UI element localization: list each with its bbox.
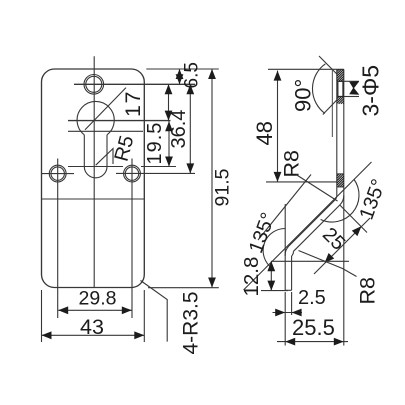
svg-text:90°: 90°	[291, 79, 316, 112]
right hole vertical centerline	[131, 159, 133, 319]
right hole bore	[125, 167, 138, 180]
countersink 90 deg upper leg	[319, 56, 337, 75]
lower bend inner arc	[292, 251, 294, 256]
left hole vertical centerline	[57, 159, 59, 319]
svg-text:29.8: 29.8	[79, 288, 117, 310]
right wall extension down (serves 135 leg and 25.5 extension)	[343, 195, 345, 345]
dimension 48	[277, 71, 279, 182]
top hole bore circle	[86, 76, 102, 92]
bottom section right wall	[291, 256, 293, 290]
vertical centerline	[93, 56, 95, 287]
hatch middle patch (side holes section)	[337, 174, 344, 187]
bottom section bottom edge	[285, 289, 291, 291]
leader for 4-R3.5	[141, 281, 168, 342]
upper bend outer arc	[340, 195, 344, 205]
svg-text:3-Φ5: 3-Φ5	[358, 65, 384, 117]
countersink 90 deg lower leg	[323, 100, 338, 115]
12.8 bottom reference line	[261, 290, 288, 292]
svg-text:4-R3.5: 4-R3.5	[180, 291, 203, 354]
right hole horizontal centerline extended to 36.4 dimension	[116, 172, 195, 174]
43 left extension line	[41, 290, 43, 342]
lower bend outer arc	[285, 246, 289, 256]
countersink bore rectangle	[338, 81, 343, 96]
left hole horizontal centerline	[42, 173, 74, 175]
dimension 19.5	[168, 121, 170, 167]
leader for R5	[96, 149, 113, 166]
R8 upper leader	[296, 175, 338, 202]
48 bottom reference line	[266, 181, 337, 183]
top hole countersink circle	[84, 75, 104, 95]
90 deg arc	[312, 64, 325, 114]
dimension 91.5	[211, 69, 213, 288]
svg-text:6.5: 6.5	[182, 62, 203, 88]
hatch top patch	[337, 69, 344, 81]
upper bend inner arc	[335, 195, 337, 200]
long construction diagonal L1	[244, 162, 372, 290]
dimension 29.8	[58, 309, 132, 311]
diagonal section upper-left edge	[289, 200, 335, 246]
svg-text:91.5: 91.5	[212, 168, 234, 206]
43 right extension line	[143, 290, 145, 342]
hatch lower patch of top hole	[337, 97, 344, 104]
horizontal reference line (12.8 top / 25 lower)	[271, 260, 349, 262]
135 left arc	[263, 228, 285, 266]
dimension 12.8	[270, 261, 272, 290]
svg-text:48: 48	[252, 121, 277, 145]
side plate right wall	[343, 69, 345, 195]
plate outline (front view, rounded rectangle 43x91.5)	[42, 69, 145, 288]
135 right arc	[321, 180, 359, 223]
dimension 43	[42, 334, 145, 336]
svg-text:43: 43	[80, 315, 104, 339]
svg-text:12.8: 12.8	[240, 257, 263, 297]
side view top edge with 48 extension	[268, 68, 344, 70]
left hole bore	[51, 167, 64, 180]
svg-text:19.5: 19.5	[144, 122, 166, 165]
25 dimension line	[314, 218, 370, 274]
bottom section left wall	[284, 256, 286, 290]
bore edge stubs	[344, 80, 359, 82]
big circle of keyhole	[77, 101, 114, 134]
91.5 bottom extension line	[148, 287, 219, 289]
svg-text:2.5: 2.5	[298, 287, 326, 309]
slot bottom centerline	[68, 166, 123, 168]
slot junction line	[68, 130, 143, 132]
right hole countersink circle	[124, 165, 141, 182]
diagonal section lower-right edge	[294, 205, 340, 251]
slot right wall	[106, 135, 108, 167]
slot left wall	[83, 135, 85, 167]
135 left vertical leg	[284, 204, 286, 256]
top hole centerline	[74, 83, 195, 85]
svg-text:36.4: 36.4	[168, 110, 190, 149]
svg-text:R8: R8	[280, 150, 304, 178]
dimension 17 vertical	[168, 84, 170, 120]
dimension 25.5	[277, 341, 348, 343]
bend line on plate	[42, 198, 145, 200]
R8 lower leader	[299, 251, 357, 277]
second construction diagonal	[258, 175, 311, 241]
3-phi5 arrows diamond	[349, 81, 359, 88]
svg-text:25.5: 25.5	[292, 315, 335, 340]
section break line	[331, 69, 333, 138]
svg-text:R8: R8	[356, 277, 380, 305]
left hole countersink circle	[49, 165, 66, 182]
big circle centerline	[68, 120, 171, 122]
2.5 extension lines	[284, 292, 286, 346]
25 perpendicular extension	[340, 205, 367, 233]
leader for 17	[85, 88, 126, 130]
slot bottom arc R5	[84, 167, 107, 178]
dimension 2.5	[273, 312, 303, 314]
svg-text:17: 17	[121, 90, 145, 117]
side plate left wall	[336, 69, 338, 195]
dimension 36.4	[189, 84, 191, 173]
middle patch borders	[337, 173, 344, 175]
dimension 6.5	[179, 69, 181, 84]
plate top edge extension line	[146, 68, 219, 70]
